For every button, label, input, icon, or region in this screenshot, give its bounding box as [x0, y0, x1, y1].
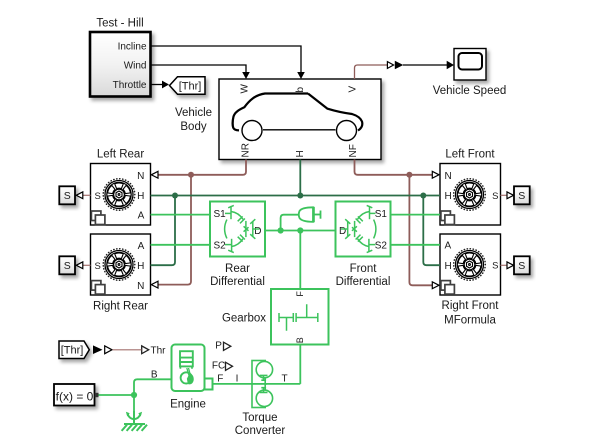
variant icon Right Rear — [91, 281, 105, 295]
junction D1 — [278, 227, 284, 233]
torque converter icon — [252, 361, 273, 408]
svg-text:Gearbox: Gearbox — [222, 313, 266, 325]
filled arrow — [395, 61, 404, 70]
arrow from tag — [93, 345, 103, 354]
svg-text:Vehicle Speed: Vehicle Speed — [433, 85, 507, 97]
wire S Left Rear — [83, 194, 91, 196]
wire S Right Front — [501, 264, 508, 266]
junction H1 — [172, 193, 178, 199]
svg-text:H: H — [445, 191, 452, 202]
wire to inertia — [281, 215, 299, 231]
svg-text:NF: NF — [348, 144, 359, 157]
svg-text:S: S — [64, 190, 71, 202]
svg-text:A: A — [138, 210, 145, 221]
svg-text:S: S — [518, 190, 525, 202]
svg-text:S: S — [518, 260, 525, 272]
wheel icon Right Rear — [103, 249, 135, 281]
block Gearbox — [271, 289, 329, 345]
svg-text:V: V — [348, 86, 359, 93]
svg-text:S1: S1 — [214, 209, 227, 220]
block Right Rear — [91, 234, 151, 295]
wire gearbox F — [299, 231, 301, 290]
svg-text:T: T — [281, 373, 287, 384]
engine piston icon — [180, 351, 194, 384]
svg-text:Throttle: Throttle — [113, 80, 147, 91]
svg-text:S: S — [95, 261, 101, 272]
svg-text:f(x) = 0: f(x) = 0 — [56, 390, 94, 404]
wire to scope — [403, 64, 447, 66]
svg-text:Differential: Differential — [336, 276, 391, 288]
svg-text:MFormula: MFormula — [444, 315, 496, 327]
variant icon Left Front — [441, 211, 455, 225]
wire V to converter — [355, 65, 388, 79]
variant icon Left Rear — [91, 211, 105, 225]
block Vehicle Body — [219, 79, 381, 160]
arrow Left Front N — [432, 171, 439, 178]
svg-text:Right Front: Right Front — [442, 300, 500, 312]
subsystem Test - Hill — [90, 32, 151, 97]
svg-text:Front: Front — [350, 263, 378, 275]
svg-text:A: A — [445, 241, 452, 252]
junction H2 — [297, 193, 303, 199]
svg-text:S1: S1 — [375, 209, 388, 220]
wire through torque converter — [252, 383, 267, 385]
svg-text:Differential: Differential — [210, 276, 265, 288]
svg-text:S2: S2 — [214, 240, 227, 251]
wire NR to rear N ports — [158, 160, 246, 175]
junction NR — [188, 172, 194, 178]
scope Vehicle Speed — [454, 49, 486, 81]
wire Throttle to Goto — [151, 84, 162, 86]
svg-text:P: P — [215, 340, 222, 351]
variant icon Right Front — [441, 281, 455, 295]
svg-text:Rear: Rear — [225, 263, 250, 275]
block Left Front — [440, 164, 501, 226]
svg-text:b: b — [295, 87, 306, 93]
differential icon front (mirrored) — [341, 205, 376, 252]
svg-text:D: D — [339, 226, 346, 237]
wire gearbox B to torque converter T — [299, 345, 301, 384]
svg-text:Thr: Thr — [151, 346, 167, 357]
svg-text:Left Front: Left Front — [445, 149, 495, 161]
wire Thr — [113, 349, 142, 351]
svg-text:N: N — [445, 171, 452, 182]
svg-text:Converter: Converter — [235, 425, 286, 437]
wire S Left Front — [501, 194, 508, 196]
wheel icon Left Rear — [103, 179, 135, 211]
engine port Thr — [142, 346, 149, 354]
svg-text:S: S — [492, 191, 498, 202]
block Right Front — [440, 234, 501, 295]
sensor block S right top — [514, 186, 530, 204]
svg-text:Incline: Incline — [118, 42, 147, 53]
block Front Differential — [336, 202, 391, 257]
svg-text:Torque: Torque — [242, 412, 277, 424]
inertia icon — [299, 207, 321, 223]
svg-text:H: H — [295, 150, 306, 157]
from tag [Thr] — [59, 341, 89, 359]
svg-text:[Thr]: [Thr] — [179, 81, 202, 93]
svg-text:W: W — [239, 84, 250, 94]
junction B — [131, 392, 137, 398]
arrow Right Rear N — [151, 281, 158, 288]
svg-text:D: D — [254, 226, 261, 237]
svg-text:S: S — [64, 260, 71, 272]
sensor block S right bottom — [514, 256, 530, 274]
junction NF — [406, 172, 412, 178]
svg-text:[Thr]: [Thr] — [61, 345, 84, 357]
wire Incline to Vehicle Body b — [151, 46, 301, 73]
gearbox icon — [279, 304, 318, 331]
block Engine — [172, 345, 205, 392]
sensor block S left bottom — [59, 256, 75, 274]
junction D2 — [297, 227, 303, 233]
sensor block S left top — [59, 186, 75, 204]
svg-text:Wind: Wind — [124, 61, 147, 72]
svg-text:Test - Hill: Test - Hill — [96, 18, 143, 30]
svg-text:Engine: Engine — [170, 399, 206, 411]
svg-text:Body: Body — [180, 121, 206, 133]
engine F port stub — [205, 379, 213, 390]
svg-text:Right Rear: Right Rear — [93, 301, 148, 313]
svg-text:FC: FC — [212, 360, 225, 371]
wire A Left Rear to Rear Differential S1 — [151, 214, 211, 216]
wheel icon Right Front — [454, 249, 486, 281]
svg-text:Left Rear: Left Rear — [97, 149, 144, 161]
wire A Right Rear to Rear Differential S2 — [151, 244, 211, 246]
block Left Rear — [91, 164, 151, 226]
svg-text:B: B — [295, 337, 305, 343]
arrow Right Front N — [432, 282, 439, 289]
arrow Left Rear N — [151, 171, 158, 178]
junction H3 — [420, 193, 426, 199]
wire D-D — [265, 230, 336, 232]
svg-text:S: S — [95, 191, 101, 202]
wire S Right Rear — [83, 264, 91, 266]
car icon — [233, 94, 363, 141]
block Rear Differential — [210, 202, 265, 257]
differential icon rear — [225, 205, 260, 252]
svg-text:S: S — [492, 261, 498, 272]
goto tag [Thr] — [170, 77, 206, 94]
wheel icon Left Front — [454, 179, 486, 211]
wire H main — [151, 195, 441, 197]
svg-text:N: N — [137, 171, 144, 182]
svg-text:A: A — [138, 241, 145, 252]
block f(x)=0 — [54, 384, 95, 406]
svg-text:NR: NR — [241, 143, 252, 157]
f(x) port stub — [95, 393, 99, 397]
svg-text:N: N — [137, 281, 144, 292]
svg-text:I: I — [236, 373, 239, 384]
wire Front Differential S1 to Left Front A — [391, 214, 441, 216]
open arrow — [387, 62, 393, 69]
svg-text:H: H — [137, 261, 144, 272]
svg-text:Vehicle: Vehicle — [175, 107, 212, 119]
wire f(x) to engine B — [99, 394, 135, 396]
svg-text:F: F — [295, 291, 305, 297]
ground mechanical reference — [122, 411, 147, 431]
svg-text:S2: S2 — [375, 240, 388, 251]
wire Wind to Vehicle Body W — [151, 65, 246, 73]
svg-text:H: H — [137, 191, 144, 202]
svg-text:F: F — [217, 373, 223, 384]
svg-text:H: H — [445, 261, 452, 272]
wire NF to front N ports — [355, 160, 433, 175]
wire Front Differential S2 to Right Front A — [391, 244, 441, 246]
